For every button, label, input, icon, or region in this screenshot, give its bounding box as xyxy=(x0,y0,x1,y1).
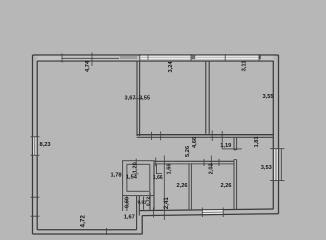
svg-text:1,67: 1,67 xyxy=(124,215,135,221)
wall V1-low below bathroom to step xyxy=(136,196,138,230)
wall A horizontal under top rooms (double line) xyxy=(137,135,274,138)
tick left wall y197 xyxy=(31,196,40,198)
svg-text:1,19: 1,19 xyxy=(220,143,231,149)
tick window bottom right end xyxy=(222,208,224,218)
window W3 room3 top xyxy=(225,56,259,59)
wall below bathroom right xyxy=(150,164,154,210)
tick right wall y180.6 xyxy=(270,180,285,182)
dimension line 4.72 tick xyxy=(106,228,108,235)
window bottom wall xyxy=(202,210,223,214)
wall V3 lower (left of 3.53 room, double line) xyxy=(234,160,237,210)
tick V3 y148.7 xyxy=(232,148,243,150)
svg-text:1,20: 1,20 xyxy=(132,162,138,173)
svg-text:4,66: 4,66 xyxy=(192,137,198,148)
tick wall C x204 door jamb xyxy=(203,159,205,166)
svg-text:1,81: 1,81 xyxy=(254,136,260,147)
dimension line 2.03 vertical xyxy=(210,156,212,168)
window left wall glazing xyxy=(34,137,36,155)
svg-text:0,60: 0,60 xyxy=(124,197,130,208)
svg-text:2,41: 2,41 xyxy=(163,197,170,209)
wall inner left xyxy=(36,61,38,230)
window pier between W1 W2 xyxy=(192,55,195,59)
wall outer bottom-left xyxy=(33,233,143,235)
svg-text:1,78: 1,78 xyxy=(110,173,121,179)
wall divider between the two 2.26 rooms (double line) xyxy=(189,163,191,210)
dimension line 3.53 outside right wall xyxy=(280,149,282,181)
tick right wall y148.7 xyxy=(270,148,285,150)
window left wall xyxy=(33,137,37,155)
window W2 top xyxy=(196,56,225,59)
tick bottom wall x153.4 xyxy=(152,208,154,218)
wall inner top xyxy=(37,60,273,62)
tick left wall y137 xyxy=(31,136,40,138)
svg-text:0,72: 0,72 xyxy=(145,196,151,206)
tick window W1 left end xyxy=(139,54,141,61)
wall inner bottom-right xyxy=(139,209,273,211)
svg-text:2,03: 2,03 xyxy=(208,163,214,174)
svg-text:4,74: 4,74 xyxy=(85,60,91,72)
window right wall glazing xyxy=(275,149,277,181)
dimension line 1.19 left xyxy=(221,131,223,149)
window W1 room2 top xyxy=(140,56,191,59)
tick window bottom left end xyxy=(201,208,203,218)
wall V3 upper (left of 3.53 room, double line) xyxy=(234,137,237,150)
svg-text:3,55: 3,55 xyxy=(139,96,150,102)
window bottom wall glazing xyxy=(202,211,223,213)
jamb right of bathroom xyxy=(156,164,158,174)
wall outer right xyxy=(278,55,280,214)
tick window W2/W3 joint xyxy=(224,54,226,61)
window right wall xyxy=(274,149,278,181)
wall outer bottom-right xyxy=(142,214,278,216)
svg-text:3,55: 3,55 xyxy=(262,94,273,100)
tick window W1 right end xyxy=(190,54,192,61)
tick crossing V1 between 3,67 and 3,55 xyxy=(134,98,142,100)
svg-text:3,53: 3,53 xyxy=(261,165,272,171)
tick left wall y155 xyxy=(31,154,40,156)
dimension line 2.41 vertical xyxy=(163,156,165,221)
svg-text:1,66: 1,66 xyxy=(166,163,172,174)
tick wall A x151.5 xyxy=(151,132,153,140)
svg-text:1,66: 1,66 xyxy=(153,175,163,181)
svg-text:2,26: 2,26 xyxy=(176,183,187,189)
tick under 1,19 xyxy=(222,148,232,150)
svg-text:2,26: 2,26 xyxy=(220,183,231,189)
svg-text:4,72: 4,72 xyxy=(80,215,87,228)
wall C horizontal above lower rooms (double line) xyxy=(154,161,234,164)
tick wall C x219 door jamb xyxy=(218,159,220,166)
wall outer left xyxy=(32,55,34,234)
tick small room top x136 xyxy=(135,159,137,167)
tick wall C x155.8 xyxy=(155,158,157,167)
wall inner bottom-left xyxy=(37,229,136,231)
svg-text:3,24: 3,24 xyxy=(168,61,174,73)
bathroom inner wall xyxy=(127,164,150,191)
tick below 1,20 xyxy=(134,173,139,175)
partition small line below bathroom xyxy=(143,197,145,210)
svg-text:1,54: 1,54 xyxy=(126,174,138,180)
tick right of bathroom y173.5 xyxy=(156,173,162,175)
tick wall A x212 xyxy=(211,131,213,142)
tick inside window W1 xyxy=(147,55,149,60)
window glazing middle lines top xyxy=(140,56,259,58)
tick left wall y216 xyxy=(31,215,40,217)
wall V1 between living room and room2 xyxy=(136,61,138,136)
svg-text:3,67: 3,67 xyxy=(124,96,135,102)
tick window W3 right end xyxy=(258,54,260,61)
svg-text:3,11: 3,11 xyxy=(242,61,248,72)
top facade band light fill xyxy=(38,56,274,61)
wall V2 between room2 and room3 xyxy=(205,61,207,134)
svg-text:8,23: 8,23 xyxy=(39,142,50,148)
lobby wall below bathroom left xyxy=(123,196,127,211)
wall step connector outer xyxy=(141,215,143,234)
wall outer top xyxy=(33,54,279,56)
dimension line 4.74 xyxy=(91,53,93,67)
tick wall A x160 xyxy=(160,132,162,141)
door opening in wall V3 xyxy=(234,150,237,160)
bathroom outer wall xyxy=(123,161,154,196)
tick top wall x62 xyxy=(61,54,63,63)
window glazing line left top xyxy=(62,57,119,59)
window pier right of W3 xyxy=(259,55,261,59)
window top wall pier dark segment xyxy=(120,55,137,59)
wall inner right xyxy=(272,61,274,209)
svg-text:5,26: 5,26 xyxy=(185,146,191,157)
